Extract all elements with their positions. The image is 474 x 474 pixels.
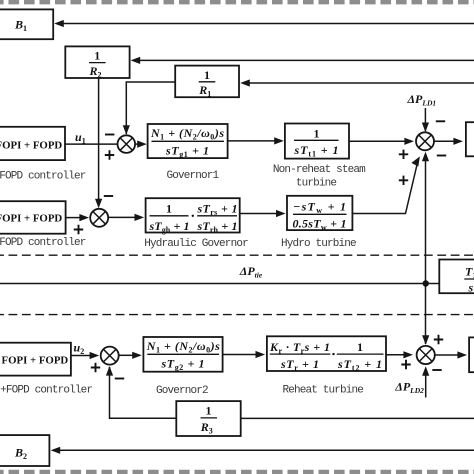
wire: controller1 to summing junction S1 [65, 143, 118, 145]
sign minus at S5 top-right [436, 120, 445, 122]
svg-text:Hydraulic Governor: Hydraulic Governor [144, 238, 248, 250]
wire: dP_LD2 up into S4 [422, 366, 429, 397]
svg-text:1: 1 [314, 127, 320, 141]
sign plus at S3 bottom-left [91, 363, 100, 372]
wire: frequency feedback to B2 [58, 449, 474, 451]
svg-text:FOPI + FOPD: FOPI + FOPD [0, 140, 62, 152]
summing junction S3 [101, 347, 119, 365]
wire: 1/R2 output down to summing junction S2 [95, 78, 102, 208]
svg-text:1: 1 [204, 68, 210, 82]
wire: dP_LD1 down into S5 [422, 108, 429, 132]
wire: frequency feedback to B1 [62, 23, 474, 25]
node tie junction dot [423, 280, 429, 286]
summing junction S1 [118, 135, 136, 153]
block 1/R2 [65, 46, 140, 79]
block T12/s (cut) [439, 260, 474, 295]
svg-text:u1: u1 [75, 130, 86, 146]
svg-text:ΔPLD1: ΔPLD1 [407, 92, 437, 108]
summing junction S2 [90, 209, 108, 227]
area separator dashed line 1 [0, 254, 474, 256]
sign minus at S5 bottom-right [437, 155, 446, 157]
label u1 [75, 130, 86, 146]
svg-text:FOPI+FOPD controller: FOPI+FOPD controller [0, 384, 92, 396]
svg-text:1: 1 [94, 49, 100, 63]
sign minus at S2 top-right [104, 195, 113, 197]
block hydro turbine [287, 196, 352, 232]
svg-text:ΔPLD2: ΔPLD2 [394, 380, 424, 396]
sign plus at S5 left [399, 150, 408, 159]
label Governor1 [167, 170, 220, 182]
label Reheat turbine [283, 384, 364, 396]
svg-text:Governor1: Governor1 [167, 170, 220, 182]
svg-text:Governor2: Governor2 [156, 385, 208, 397]
wire: 1/R3 output to S3 [106, 366, 176, 418]
sign minus at S4 bottom-right [432, 369, 441, 371]
block FOPI+FOPD controller 3 [0, 343, 71, 376]
area separator dashed line 2 [0, 314, 474, 316]
wire: reheat turbine to summing junction S4 [386, 351, 413, 358]
block power system 2 (cut) [469, 337, 474, 372]
svg-text:FOPI + FOPD: FOPI + FOPD [0, 213, 62, 225]
block reheat turbine [267, 336, 386, 372]
wire: S1 to Governor1 [135, 141, 147, 148]
block power system 1 (cut) [466, 122, 474, 156]
label dP_LD1 [407, 92, 437, 108]
svg-text:Hydro turbine: Hydro turbine [281, 238, 356, 250]
summing junction S4 [417, 346, 435, 364]
label FOPD controller 1 [0, 170, 86, 182]
wire: hydro turbine diagonal to summing junction S5 [352, 156, 420, 213]
wire: S4 to power system 2 [435, 351, 467, 358]
wire: S3 to Governor2 [119, 352, 142, 359]
block FOPI+FOPD controller 2 [0, 201, 66, 234]
wire: 1/R1 output to summing junction S1 [123, 82, 176, 135]
block Governor1 [148, 124, 228, 159]
label Governor2 [156, 385, 208, 397]
svg-text:ΔPtie: ΔPtie [239, 264, 263, 280]
label Hydraulic Governor [144, 238, 248, 250]
sign plus at S5 lower-left [399, 176, 408, 185]
wire: steam turbine to summing junction S5 [349, 138, 414, 145]
svg-text:0.5sTw + 1: 0.5sTw + 1 [293, 217, 347, 233]
wire: tie-line vertical through areas [422, 152, 429, 345]
block B2 [0, 435, 60, 466]
wire: S2 to hydraulic governor [108, 214, 144, 221]
svg-text:FOPI + FOPD: FOPI + FOPD [2, 354, 69, 366]
label u2 [74, 341, 85, 357]
label FOPD controller 3 [0, 384, 92, 396]
wire: dP_tie horizontal line [0, 283, 439, 285]
block non-reheat steam turbine [285, 124, 349, 159]
sign plus at S1 bottom-left [105, 150, 114, 159]
svg-text:1: 1 [357, 340, 363, 354]
wire: Governor2 to reheat turbine [223, 351, 266, 358]
svg-text:sTt1 + 1: sTt1 + 1 [294, 143, 339, 159]
svg-text:sTr + 1: sTr + 1 [280, 357, 319, 373]
svg-text:FOPI+FOPD controller: FOPI+FOPD controller [0, 237, 86, 249]
svg-text:sTrs + 1: sTrs + 1 [197, 202, 238, 218]
sign plus at S2 bottom-left [74, 225, 83, 234]
label Hydro turbine [281, 238, 356, 250]
wire: controller2 to summing junction S2 [66, 214, 89, 221]
summing junction S5 [416, 132, 434, 150]
svg-text:1: 1 [166, 202, 172, 216]
block 1/R3 [176, 401, 240, 436]
block B1 [0, 9, 64, 39]
label FOPD controller 2 [0, 237, 86, 249]
svg-text:u2: u2 [74, 341, 85, 357]
label Non-reheat steam turbine [273, 164, 366, 190]
top gray dashed border [0, 0, 474, 4]
svg-text:Reheat turbine: Reheat turbine [283, 384, 364, 396]
block FOPI+FOPD controller 1 [0, 127, 65, 160]
block 1/R1 [175, 66, 250, 99]
svg-text:FOPI+FOPD controller: FOPI+FOPD controller [0, 170, 86, 182]
wire: controller3 to summing junction S3 [71, 352, 99, 359]
svg-text:1: 1 [206, 404, 212, 418]
bottom gray dashed border [0, 470, 474, 474]
wire: frequency feedback to 1/R3 [241, 417, 474, 419]
wire: S5 to power system 1 [434, 138, 463, 145]
svg-text:sTt2 + 1: sTt2 + 1 [337, 357, 382, 373]
wire: hydraulic governor to hydro turbine [240, 210, 286, 217]
block hydraulic governor [146, 198, 240, 234]
svg-text:Non-reheat steam: Non-reheat steam [273, 164, 366, 176]
sign plus at S4 top-right [434, 335, 443, 344]
sign minus at S1 top-left [105, 134, 114, 136]
sign plus at S4 left [401, 360, 410, 369]
svg-text:turbine: turbine [296, 177, 337, 189]
wire: frequency feedback to 1/R2 [138, 59, 474, 61]
svg-text:s: s [468, 281, 474, 295]
wire: frequency feedback to 1/R1 [247, 82, 474, 84]
block Governor2 [143, 337, 222, 372]
label dP_tie [239, 264, 263, 280]
sign minus at S3 bottom-right [115, 378, 124, 380]
label dP_LD2 [394, 380, 424, 396]
wire: Governor1 to non-reheat steam turbine [228, 137, 284, 144]
